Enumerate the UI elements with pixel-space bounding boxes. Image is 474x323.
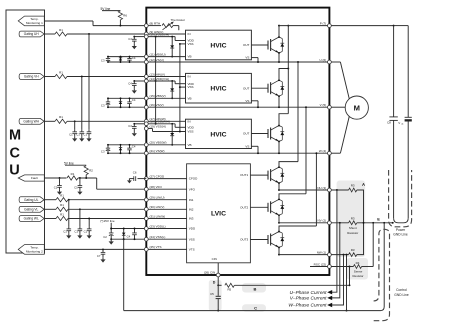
svg-text:C4: C4 [128, 124, 132, 128]
svg-text:P (7): P (7) [320, 22, 326, 26]
svg-text:C1: C1 [84, 229, 88, 233]
svg-text:NV (2): NV (2) [318, 219, 327, 223]
svg-text:(16) VS(V): (16) VS(V) [150, 103, 164, 107]
svg-text:Gating WH: Gating WH [23, 119, 39, 123]
svg-text:VSS: VSS [188, 130, 194, 134]
svg-text:C: C [254, 306, 257, 311]
svg-text:LVIC: LVIC [211, 211, 226, 218]
svg-text:NU (3): NU (3) [317, 186, 326, 190]
svg-text:RSC (22): RSC (22) [314, 262, 327, 266]
svg-text:VFO: VFO [189, 187, 196, 191]
svg-text:VDD: VDD [189, 227, 196, 231]
svg-text:OUT: OUT [243, 132, 250, 136]
svg-text:U: U [9, 163, 19, 179]
svg-text:(25) VTS: (25) VTS [150, 245, 162, 249]
svg-text:V: V [398, 121, 400, 125]
svg-text:C1: C1 [74, 229, 78, 233]
svg-text:C1: C1 [76, 132, 80, 136]
svg-text:M: M [9, 128, 21, 144]
svg-text:A: A [362, 182, 365, 187]
svg-text:R4: R4 [356, 261, 360, 265]
svg-text:R3: R3 [351, 184, 355, 188]
svg-text:C5: C5 [210, 292, 214, 296]
svg-text:Monitoring 1: Monitoring 1 [26, 21, 43, 25]
svg-text:R1: R1 [60, 194, 64, 198]
svg-text:Control: Control [396, 288, 407, 292]
svg-text:OUT1: OUT1 [240, 173, 248, 177]
svg-text:C4: C4 [132, 56, 136, 60]
svg-text:(31) LIN(W): (31) LIN(W) [150, 214, 166, 218]
svg-text:D: D [213, 281, 216, 285]
svg-text:C4: C4 [127, 234, 131, 238]
svg-text:VSS: VSS [188, 85, 194, 89]
svg-text:IN3: IN3 [189, 217, 194, 221]
svg-text:(19) VSS(H): (19) VSS(H) [150, 124, 166, 128]
svg-text:C7: C7 [97, 254, 101, 258]
svg-text:C4: C4 [132, 98, 136, 102]
svg-text:(13) HIN(V): (13) HIN(V) [150, 72, 165, 76]
svg-text:R1: R1 [59, 115, 63, 119]
svg-text:Sense: Sense [354, 270, 363, 274]
svg-text:HVIC: HVIC [210, 42, 226, 49]
svg-text:CIN: CIN [212, 257, 217, 261]
svg-text:W–Phase Current: W–Phase Current [288, 303, 327, 309]
svg-text:(14) VDD(V/H): (14) VDD(V/H) [150, 77, 170, 81]
svg-text:R1: R1 [71, 172, 75, 176]
svg-text:C1: C1 [54, 185, 58, 189]
svg-text:C3: C3 [101, 150, 105, 154]
svg-text:Thermistor: Thermistor [171, 18, 186, 22]
svg-text:R1: R1 [59, 28, 63, 32]
svg-text:V (5): V (5) [320, 103, 327, 107]
svg-text:C1: C1 [83, 132, 87, 136]
svg-text:OUT: OUT [243, 86, 250, 90]
svg-text:(18) VDD(W/H): (18) VDD(W/H) [150, 120, 170, 124]
svg-text:VSS: VSS [188, 42, 194, 46]
svg-text:C4: C4 [128, 37, 132, 41]
svg-text:(27) CFOD: (27) CFOD [150, 174, 166, 178]
svg-text:(*)15V line: (*)15V line [100, 219, 115, 223]
svg-text:IN: IN [188, 75, 191, 79]
svg-text:GND Line: GND Line [393, 233, 408, 237]
svg-text:C: C [10, 146, 21, 162]
svg-text:(23) VDD(L): (23) VDD(L) [150, 224, 166, 228]
svg-text:U (6): U (6) [320, 58, 327, 62]
svg-text:Power: Power [396, 228, 406, 232]
svg-text:VS: VS [245, 144, 249, 148]
svg-text:(10) VDD(U/H): (10) VDD(U/H) [150, 32, 170, 36]
svg-text:W (4): W (4) [319, 149, 326, 153]
svg-text:IN: IN [188, 119, 191, 123]
svg-text:VB: VB [188, 96, 192, 100]
svg-text:(21) VS(W): (21) VS(W) [150, 149, 165, 153]
svg-text:Resistor: Resistor [352, 274, 363, 278]
svg-text:Resistor: Resistor [347, 231, 358, 235]
svg-text:OUT2: OUT2 [240, 205, 248, 209]
svg-text:C1: C1 [69, 132, 73, 136]
svg-text:Shunt: Shunt [349, 226, 357, 230]
svg-text:NW (1): NW (1) [317, 251, 327, 255]
svg-text:C4: C4 [132, 144, 136, 148]
svg-text:OUT: OUT [243, 43, 250, 47]
svg-text:IN: IN [188, 32, 191, 36]
svg-text:OUT3: OUT3 [240, 238, 248, 242]
svg-text:V–Phase Current: V–Phase Current [290, 296, 327, 302]
svg-text:(29) LIN(U): (29) LIN(U) [150, 196, 165, 200]
svg-text:(11) VBS(U): (11) VBS(U) [150, 52, 166, 56]
svg-text:R1: R1 [60, 203, 64, 207]
svg-text:M: M [354, 103, 360, 112]
svg-text:VS: VS [245, 56, 249, 60]
svg-text:Gating UH: Gating UH [24, 32, 40, 36]
svg-text:R5: R5 [227, 288, 231, 292]
svg-text:C8: C8 [387, 121, 391, 125]
svg-text:C3: C3 [101, 104, 105, 108]
svg-text:U–Phase Current: U–Phase Current [289, 290, 327, 296]
svg-text:IN1: IN1 [189, 198, 194, 202]
svg-text:GND Line: GND Line [394, 293, 409, 297]
svg-text:VTS: VTS [189, 248, 195, 252]
svg-text:Gating VL: Gating VL [24, 207, 38, 211]
svg-text:Monitoring 2: Monitoring 2 [26, 250, 43, 254]
svg-text:Gating UL: Gating UL [24, 198, 39, 202]
svg-text:(20) VBS(W): (20) VBS(W) [150, 141, 167, 145]
svg-text:R6: R6 [123, 14, 127, 18]
svg-text:C1: C1 [63, 229, 67, 233]
svg-text:R3: R3 [351, 216, 355, 220]
svg-text:R1: R1 [59, 70, 63, 74]
svg-text:VB: VB [188, 143, 192, 147]
svg-text:R3: R3 [351, 248, 355, 252]
svg-text:C1: C1 [74, 185, 78, 189]
svg-text:R1: R1 [60, 212, 64, 216]
svg-text:HVIC: HVIC [210, 86, 226, 93]
svg-text:(28) VFO: (28) VFO [150, 185, 163, 189]
svg-text:(12) VS(U): (12) VS(U) [150, 58, 164, 62]
svg-text:5V line: 5V line [64, 161, 74, 165]
svg-text:VS: VS [245, 99, 249, 103]
svg-text:E: E [377, 216, 380, 221]
svg-text:C3: C3 [101, 59, 105, 63]
svg-text:VB: VB [188, 55, 192, 59]
svg-text:Gating VH: Gating VH [24, 75, 39, 79]
svg-text:IN2: IN2 [189, 207, 194, 211]
svg-text:C6: C6 [133, 171, 137, 175]
svg-text:(8) RTH: (8) RTH [150, 21, 161, 25]
svg-text:(26) CIN: (26) CIN [204, 271, 215, 275]
svg-text:(24) VSS(L): (24) VSS(L) [150, 235, 166, 239]
svg-text:Fault: Fault [31, 176, 38, 180]
svg-text:C4: C4 [128, 81, 132, 85]
svg-text:(15) VBS(V): (15) VBS(V) [150, 94, 166, 98]
svg-text:C2: C2 [103, 235, 107, 239]
svg-text:R2: R2 [89, 169, 93, 173]
svg-text:Gating WL: Gating WL [24, 217, 39, 221]
svg-text:HVIC: HVIC [210, 131, 226, 138]
svg-text:CFOD: CFOD [189, 177, 198, 181]
svg-text:(30) LIN(V): (30) LIN(V) [150, 205, 165, 209]
svg-text:VSS: VSS [189, 237, 195, 241]
svg-text:B: B [253, 287, 256, 292]
